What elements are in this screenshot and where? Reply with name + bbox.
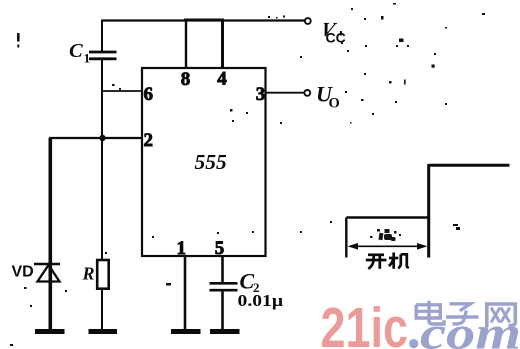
svg-text:C: C xyxy=(69,40,83,62)
svg-text:6: 6 xyxy=(144,84,154,105)
svg-text:1: 1 xyxy=(177,238,187,259)
svg-text:555: 555 xyxy=(195,150,228,174)
svg-text:VD: VD xyxy=(12,264,34,281)
svg-text:O: O xyxy=(329,96,340,112)
svg-text:0.01μ: 0.01μ xyxy=(238,291,284,310)
svg-text:2: 2 xyxy=(144,130,154,151)
svg-text:4: 4 xyxy=(217,69,227,90)
svg-text:21ic: 21ic xyxy=(321,296,409,349)
svg-text:R: R xyxy=(82,264,95,284)
svg-text:8: 8 xyxy=(181,69,191,90)
svg-text:1: 1 xyxy=(84,51,91,66)
svg-text:5: 5 xyxy=(215,238,225,259)
svg-text:3: 3 xyxy=(256,84,266,105)
